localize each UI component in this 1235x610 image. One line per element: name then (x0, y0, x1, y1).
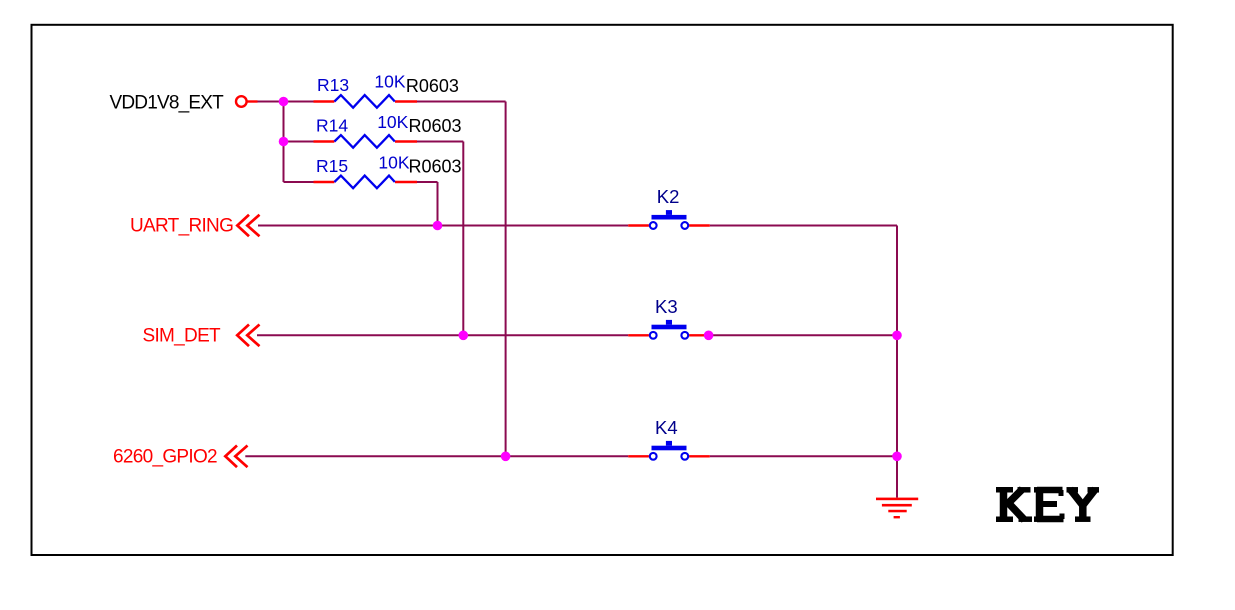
svg-text:R0603: R0603 (409, 156, 462, 176)
svg-text:R13: R13 (317, 75, 349, 95)
svg-text:UART_RING: UART_RING (130, 216, 233, 237)
svg-text:K2: K2 (657, 186, 680, 207)
svg-text:10K: 10K (377, 112, 408, 132)
svg-text:K4: K4 (655, 417, 678, 438)
svg-text:6260_GPIO2: 6260_GPIO2 (113, 446, 217, 467)
svg-text:R0603: R0603 (409, 116, 462, 136)
svg-text:VDD1V8_EXT: VDD1V8_EXT (110, 92, 225, 113)
svg-text:10K: 10K (378, 153, 409, 173)
svg-text:R15: R15 (316, 156, 348, 176)
svg-text:SIM_DET: SIM_DET (143, 326, 222, 347)
svg-text:K3: K3 (655, 296, 678, 317)
svg-text:R0603: R0603 (406, 76, 459, 96)
svg-text:10K: 10K (374, 72, 405, 92)
svg-text:R14: R14 (316, 116, 348, 136)
